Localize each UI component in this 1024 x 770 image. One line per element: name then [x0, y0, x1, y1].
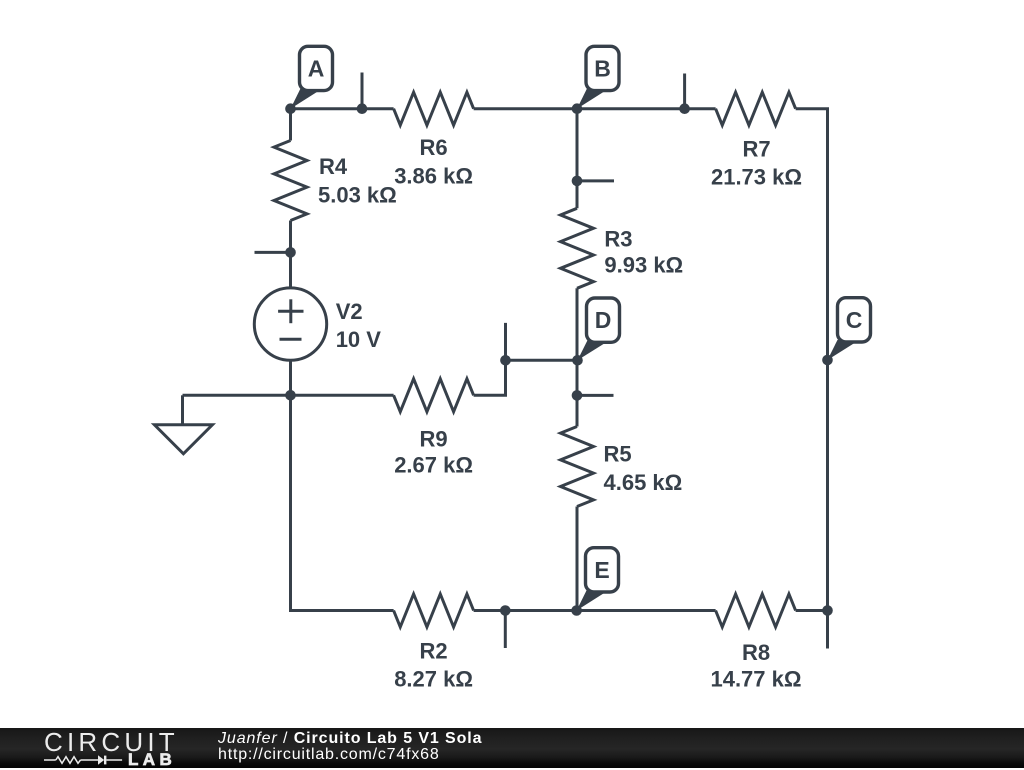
junction y=180.9 on B-R3 wire [572, 176, 583, 187]
junction y=395.4 below D [572, 390, 583, 401]
wire R2 right lead to R8 left lead through node E [474, 609, 716, 612]
node flag B [577, 46, 619, 108]
wire R3 bottom lead to R5 top lead through node D [576, 288, 579, 426]
wire stub up at x=362 [361, 73, 364, 109]
wire R7 right lead and right vertical through node C with stub below [796, 109, 828, 649]
junction node C [822, 355, 833, 366]
wire R8 right lead to bottom-right corner [796, 609, 829, 612]
svg-text:D: D [595, 307, 612, 333]
node flag A [291, 46, 333, 108]
svg-text:R2: R2 [420, 639, 448, 664]
svg-text:21.73 kΩ: 21.73 kΩ [711, 165, 802, 190]
wire V2 bottom to bottom-left corner then to R2 left lead [291, 360, 394, 610]
CircuitLab logo wordmark CIRCUIT [44, 727, 179, 758]
resistor R9 2.67 k [394, 379, 474, 478]
svg-text:R9: R9 [420, 427, 448, 452]
svg-text:4.65 kΩ: 4.65 kΩ [604, 470, 683, 495]
junction node B [572, 103, 583, 114]
node flag D [578, 298, 620, 360]
junction bottom-right corner [822, 605, 833, 616]
junction riser x=505.5 [500, 355, 511, 366]
junction x=684.6 top wire [679, 103, 690, 114]
junction at A-R4 corner [285, 103, 296, 114]
voltage source V2 10 V [254, 288, 381, 360]
junction x=505.3 bottom wire [500, 605, 511, 616]
ground [154, 395, 212, 454]
junction x=362 top wire [357, 103, 368, 114]
wire stub right at y=395.4 [577, 394, 614, 397]
junction R4 bottom stub [285, 247, 296, 258]
svg-text:V2: V2 [336, 299, 363, 324]
svg-text:2.67 kΩ: 2.67 kΩ [394, 453, 473, 478]
wire R6 right lead to node B [474, 107, 577, 110]
resistor R7 21.73 k [711, 92, 802, 190]
resistor R4 5.03 k [274, 141, 397, 221]
svg-text:3.86 kΩ: 3.86 kΩ [394, 163, 473, 188]
svg-text:14.77 kΩ: 14.77 kΩ [710, 667, 801, 692]
wire node B to R7 left lead [577, 107, 716, 110]
wire node B to R3 top lead [576, 109, 579, 209]
resistor R8 14.77 k [710, 594, 801, 692]
svg-text:5.03 kΩ: 5.03 kΩ [318, 182, 397, 207]
svg-text:C: C [846, 307, 863, 333]
junction node D [572, 355, 583, 366]
wire node A to R6 left lead [291, 107, 394, 110]
footer url [218, 746, 440, 764]
svg-text:9.93 kΩ: 9.93 kΩ [604, 253, 683, 278]
svg-text:B: B [594, 56, 611, 82]
wire stub left at y=252.4 [255, 251, 291, 254]
svg-text:R7: R7 [742, 137, 770, 162]
svg-text:R3: R3 [604, 226, 632, 251]
resistor R2 8.27 k [394, 594, 474, 691]
wire R4 bottom lead to V2 top [289, 221, 292, 288]
wire ground rail to R9 left lead [183, 394, 394, 397]
node flag E [577, 548, 619, 611]
wire stub right at y=180.9 [577, 179, 614, 182]
svg-text:R8: R8 [742, 640, 770, 665]
CircuitLab logo resistor-diode symbol [44, 753, 124, 767]
svg-text:10 V: 10 V [336, 327, 382, 352]
resistor R3 9.93 k [561, 208, 684, 288]
wire junction to node D [506, 359, 578, 362]
wire stub up at x=684.6 [683, 74, 686, 109]
svg-text:8.27 kΩ: 8.27 kΩ [394, 666, 473, 691]
wire stub down at x=505.3 [504, 611, 507, 649]
junction ground rail [285, 390, 296, 401]
svg-text:A: A [308, 56, 325, 82]
wire R5 bottom lead to node E [576, 507, 579, 611]
svg-text:E: E [594, 557, 609, 583]
resistor R6 3.86 k [394, 92, 474, 188]
wire R9 right lead to corner riser x=505.5 with stub above [474, 323, 506, 395]
CircuitLab logo wordmark LAB [128, 750, 176, 770]
footer title: Juanfer / Circuito Lab 5 V1 Sola [218, 730, 482, 748]
svg-text:R6: R6 [420, 135, 448, 160]
junction node E [571, 605, 582, 616]
resistor R5 4.65 k [561, 427, 683, 507]
wire node A to R4 top lead [289, 109, 292, 141]
svg-text:R4: R4 [319, 154, 348, 179]
node flag C [828, 298, 871, 360]
svg-text:R5: R5 [604, 442, 632, 467]
